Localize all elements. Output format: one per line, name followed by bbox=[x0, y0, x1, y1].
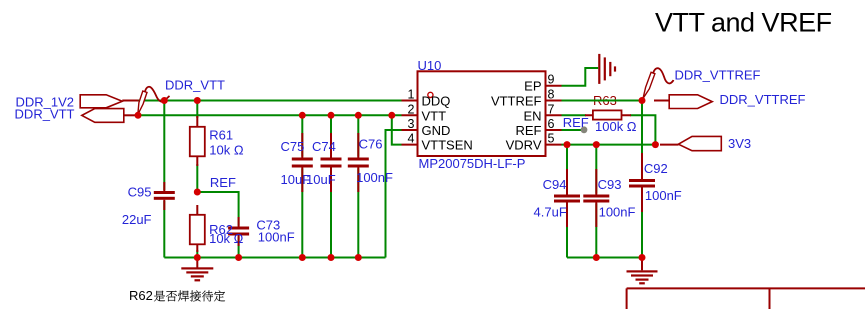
capacitor C76 plates bbox=[348, 158, 369, 161]
svg-text:MP20075DH-LF-P: MP20075DH-LF-P bbox=[419, 156, 526, 171]
svg-text:GND: GND bbox=[422, 123, 451, 138]
resistor R62 body bbox=[190, 215, 205, 245]
resistor R63 body bbox=[593, 110, 622, 119]
capacitor C75 plates bbox=[292, 158, 313, 161]
svg-text:REF: REF bbox=[516, 123, 542, 138]
svg-text:10k Ω: 10k Ω bbox=[209, 143, 244, 158]
svg-text:100nF: 100nF bbox=[356, 170, 393, 185]
svg-text:DDQ: DDQ bbox=[422, 94, 451, 109]
wire C76 column bbox=[357, 115, 359, 257]
svg-text:2: 2 bbox=[408, 102, 415, 116]
port DDR_1V2 bbox=[80, 95, 122, 108]
capacitor C95 plates bbox=[154, 191, 175, 194]
resistor R63 leads bbox=[585, 114, 631, 116]
svg-text:C76: C76 bbox=[359, 137, 383, 152]
svg-text:8: 8 bbox=[548, 88, 555, 102]
ground symbol right (below C92) bbox=[627, 258, 658, 285]
wire R61 bottom to REF node bbox=[196, 164, 198, 192]
capacitor C95 leads bbox=[163, 182, 165, 210]
wire pin6 REF stub bbox=[562, 129, 584, 131]
wire row1 DDR_VTT net horizontal bbox=[138, 100, 402, 102]
svg-text:4: 4 bbox=[408, 132, 415, 146]
wire red stub to 3V3 port bbox=[660, 144, 679, 146]
wire VTTSEN pin4 riser bbox=[392, 115, 402, 144]
wire row2 VTT net horizontal bbox=[138, 114, 402, 116]
capacitor C73 plates bbox=[228, 227, 249, 230]
capacitor C75 leads bbox=[301, 133, 303, 192]
port DDR_VTTREF bbox=[669, 95, 712, 109]
wire R61 column top bbox=[196, 101, 198, 119]
svg-text:VDRV: VDRV bbox=[506, 138, 542, 153]
capacitor C92 leads bbox=[641, 153, 643, 212]
svg-text:R61: R61 bbox=[209, 128, 233, 143]
svg-text:R62: R62 bbox=[129, 288, 153, 303]
wire C95 column bbox=[163, 101, 165, 258]
ground symbol left (below R62) bbox=[181, 258, 213, 282]
ground symbol rotated (EP pin) bbox=[598, 54, 616, 84]
port DDR_VTT bbox=[82, 109, 124, 123]
svg-text:3V3: 3V3 bbox=[728, 136, 751, 151]
svg-text:C94: C94 bbox=[543, 177, 567, 192]
svg-text:VTTSEN: VTTSEN bbox=[422, 138, 473, 153]
chip stubs left bbox=[402, 101, 418, 145]
svg-text:7: 7 bbox=[548, 102, 555, 116]
svg-text:C95: C95 bbox=[128, 184, 152, 199]
wire REF node to C73 bbox=[197, 192, 238, 258]
svg-text:100nF: 100nF bbox=[645, 188, 682, 203]
wire pin8 VTTREF row bbox=[562, 100, 643, 102]
svg-text:REF: REF bbox=[210, 175, 236, 190]
svg-text:U10: U10 bbox=[418, 58, 442, 73]
wire pin7 EN to R63 bbox=[562, 114, 587, 116]
svg-text:VTT and VREF: VTT and VREF bbox=[655, 8, 832, 38]
wire row2 red stub from port DDR_VTT bbox=[124, 114, 139, 116]
wire C92 column bbox=[641, 101, 643, 258]
svg-text:DDR_VTTREF: DDR_VTTREF bbox=[720, 92, 806, 107]
wire R62 bottom to ground row bbox=[196, 250, 198, 258]
wire EP pin9 to ground bbox=[562, 68, 599, 86]
resistor R62 leads bbox=[196, 205, 198, 252]
capacitor C93 plates bbox=[583, 195, 609, 198]
chip stubs right bbox=[546, 86, 562, 145]
svg-text:VTT: VTT bbox=[422, 108, 447, 123]
capacitor C73 leads bbox=[238, 217, 240, 246]
wire bottom ground row right bbox=[567, 257, 642, 259]
pin 1 marker circle bbox=[428, 92, 433, 97]
wire bottom ground row left bbox=[164, 257, 385, 259]
svg-text:100k Ω: 100k Ω bbox=[595, 119, 637, 134]
chip pin names bbox=[422, 79, 542, 153]
svg-text:EN: EN bbox=[523, 108, 541, 123]
svg-text:REF: REF bbox=[563, 115, 589, 130]
wire red stub to DDR_VTTREF port bbox=[654, 100, 669, 102]
blue labels bbox=[15, 58, 806, 246]
capacitor C94 plates bbox=[554, 195, 580, 198]
svg-text:DDR_VTTREF: DDR_VTTREF bbox=[675, 68, 761, 83]
svg-text:DDR_VTT: DDR_VTT bbox=[15, 107, 75, 122]
svg-text:4.7uF: 4.7uF bbox=[534, 204, 567, 219]
net tie squiggle left bbox=[138, 87, 170, 115]
svg-text:10uF: 10uF bbox=[306, 172, 336, 187]
svg-text:22uF: 22uF bbox=[122, 212, 152, 227]
wire C93 column bbox=[595, 145, 597, 258]
svg-text:3: 3 bbox=[408, 117, 415, 131]
resistor R61 body bbox=[190, 127, 205, 157]
capacitor C74 plates bbox=[321, 158, 342, 161]
svg-text:C75: C75 bbox=[281, 139, 305, 154]
net tie squiggle right bbox=[643, 68, 673, 98]
svg-text:C92: C92 bbox=[644, 161, 668, 176]
svg-text:5: 5 bbox=[548, 132, 555, 146]
wire VDRV row bbox=[562, 144, 656, 146]
capacitor C74 leads bbox=[330, 133, 332, 192]
svg-text:9: 9 bbox=[548, 73, 555, 87]
svg-text:10k Ω: 10k Ω bbox=[209, 231, 244, 246]
wire row1 red stub from port DDR_1V2 bbox=[122, 100, 138, 102]
table frame lines bottom right bbox=[627, 288, 865, 309]
svg-text:6: 6 bbox=[548, 117, 555, 131]
svg-text:100nF: 100nF bbox=[258, 230, 295, 245]
svg-text:C93: C93 bbox=[598, 177, 622, 192]
wire R63 right to VDRV row bbox=[630, 115, 655, 144]
capacitor C76 leads bbox=[357, 133, 359, 192]
wire C75 column bbox=[301, 115, 303, 257]
wire GND pin3 riser bbox=[386, 130, 402, 258]
capacitor C93 leads bbox=[595, 169, 597, 227]
svg-text:C74: C74 bbox=[312, 139, 336, 154]
svg-text:DDR_VTT: DDR_VTT bbox=[165, 78, 225, 93]
svg-text:VTTREF: VTTREF bbox=[491, 94, 542, 109]
svg-text:1: 1 bbox=[408, 88, 415, 102]
no-connect gray dot pin6 bbox=[581, 126, 588, 133]
capacitor C92 plates bbox=[629, 179, 655, 182]
chip pin numbers bbox=[408, 73, 555, 146]
svg-text:100nF: 100nF bbox=[599, 204, 636, 219]
port 3V3 bbox=[678, 136, 721, 150]
wire C94 column bbox=[566, 145, 568, 258]
resistor R61 leads bbox=[196, 116, 198, 166]
capacitor C94 leads bbox=[566, 169, 568, 227]
svg-text:EP: EP bbox=[524, 79, 541, 94]
wire C74 column bbox=[330, 115, 332, 257]
op-amp U10 chip body MP20075 bbox=[418, 71, 546, 156]
